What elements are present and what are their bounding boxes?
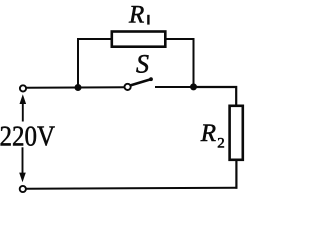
resistor R2 (230, 106, 243, 160)
svg-text:220V: 220V (0, 121, 55, 153)
arrow down (toward bottom terminal) (19, 147, 26, 182)
switch S blade (131, 77, 153, 85)
svg-text:2: 2 (217, 135, 225, 151)
wire: R2 bottom lead (235, 161, 237, 189)
junction dot right (190, 83, 197, 90)
wire: bottom return wire (26, 188, 237, 189)
wire: left junction to switch pivot (78, 86, 124, 88)
source terminal top (20, 85, 26, 91)
wire: right junction to top-right corner down to R2 (194, 87, 237, 106)
svg-text:R: R (128, 2, 144, 29)
arrow up (toward top terminal) (20, 94, 27, 121)
junction dot left (75, 84, 82, 91)
wire: switch right contact to right junction (155, 86, 194, 88)
source terminal bottom (20, 186, 26, 192)
svg-text:S: S (136, 50, 149, 79)
svg-text:R: R (200, 120, 216, 147)
switch S pivot (125, 84, 131, 90)
resistor R1 (112, 32, 166, 47)
wire: top-left terminal to left junction (26, 87, 78, 89)
wire: R1 branch left (junction up and right to R1) (78, 39, 111, 89)
wire: R1 right lead down to right junction (166, 39, 194, 87)
